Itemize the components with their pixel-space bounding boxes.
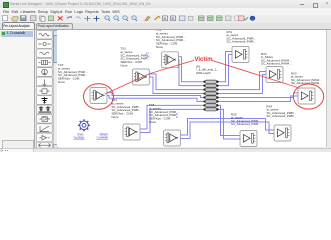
svg-text:1B_..: 1B_.. [146,57,152,59]
svg-text:None: None [112,115,119,119]
svg-text:Victim: Victim [195,57,213,63]
svg-text:None: None [156,45,163,49]
tab inactive [36,23,73,31]
tab active [2,22,35,30]
transmission line TL1 [203,80,218,83]
palette column [35,30,58,148]
palette scrollbar [53,30,58,148]
toolbar [0,15,331,25]
topology gear icon [78,119,90,131]
svg-text:default: default [100,132,108,136]
buffer TX1 [162,52,179,68]
buffer TX5 [164,130,181,146]
tree panel [0,30,35,148]
svg-text:E: E [172,16,175,21]
wire TX4 pair to rows 7-8 [140,105,204,132]
victim highlight circle RX3 [293,84,323,109]
schematic area [57,30,326,147]
right scrollbar [326,30,331,147]
svg-text:E..: E.. [176,114,179,116]
svg-text:E..: E.. [176,117,179,119]
wire coupled-line row stubs [204,82,219,110]
wire TX1 pair to coupled lines rows 1-2 [178,57,204,86]
buffer RX5 [240,131,257,147]
tree bottom inset [2,140,34,151]
svg-text:SC_Advanced_PWR...: SC_Advanced_PWR... [227,40,257,44]
victim highlight circle TX3 [84,84,114,110]
svg-text:SW/Length: SW/Length [196,71,211,75]
wire victim TX3 pair to rows 5-6 [107,93,204,102]
transmission line TL2 [203,84,218,87]
wire rows 7-8 to RX5 [219,105,241,139]
transmission line TL4 [203,92,218,95]
buffer TX2 [132,69,149,85]
transmission line TL7 [203,104,218,107]
buffer RX3 victim [298,88,315,104]
buffer RX1 [232,47,249,63]
buffer TX4 [123,124,140,140]
wire rows 5-6 to victim RX3 [219,93,299,101]
transmission line TL3 [203,88,218,91]
wire rows 1-2 to RX1 [219,52,233,86]
buffer RX2 [266,67,283,83]
wire rows 3-4 to RX2 [219,72,267,94]
svg-text:SC_Advanced_PWR...: SC_Advanced_PWR... [231,122,261,126]
victim annotation line left [105,60,194,94]
buffer TX3 victim [90,88,107,104]
svg-text:None: None [149,120,156,124]
svg-text:None: None [121,64,128,68]
wire TX2 pair to rows 3-4 [149,74,204,94]
transmission line TL5 [203,96,218,99]
transmission line TL8 [203,108,218,111]
svg-text:SC_Advanced_PWR...: SC_Advanced_PWR... [267,114,297,118]
victim annotation line right [212,60,298,87]
svg-text:K: K [164,16,167,21]
transmission line TL6 [203,100,218,103]
svg-text:Crosstalk: Crosstalk [97,136,109,140]
status bar [0,148,331,154]
title bar [0,0,331,9]
buffer RX4 [274,125,291,141]
svg-text:SC_Advanced_PAM4...: SC_Advanced_PAM4... [261,62,292,66]
menu bar [0,8,331,15]
svg-text:1A_..: 1A_.. [146,52,152,55]
svg-text:From: From [78,132,85,136]
svg-text:SC_Advanced_PAM4...: SC_Advanced_PAM4... [291,81,322,85]
tab row [0,23,331,30]
wire TX5 bypass pair to RX4 [181,119,275,139]
svg-text:Topology: Topology [74,136,85,140]
svg-text:None: None [58,80,65,84]
